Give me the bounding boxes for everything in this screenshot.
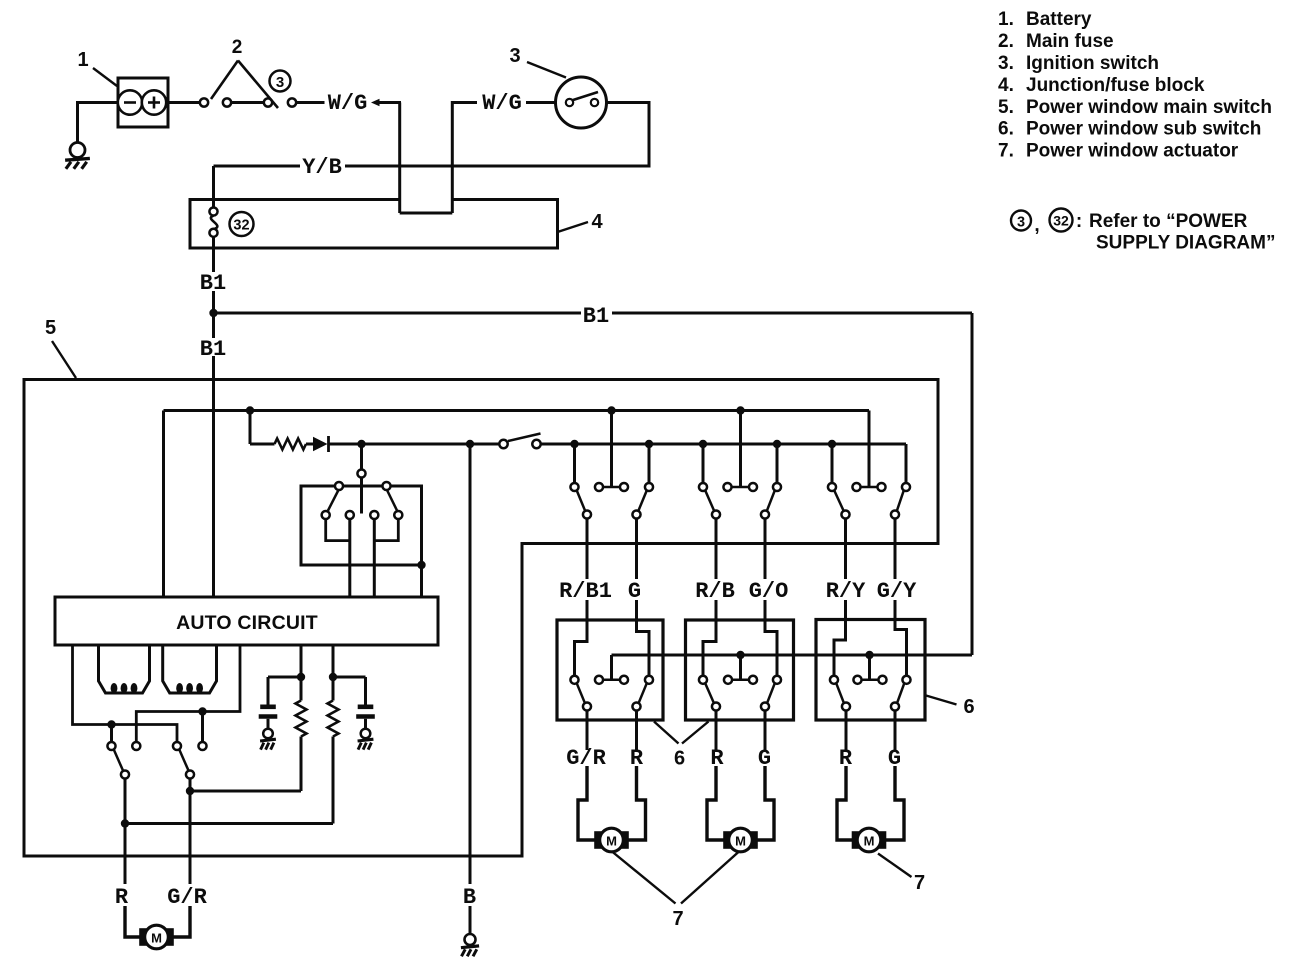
svg-text:B1: B1	[200, 337, 226, 362]
svg-text:Power window sub switch: Power window sub switch	[1026, 119, 1261, 140]
svg-text:2.: 2.	[998, 31, 1014, 52]
svg-text:Refer to “POWER: Refer to “POWER	[1089, 211, 1248, 232]
svg-text:7: 7	[672, 908, 683, 930]
svg-text:,: ,	[1034, 215, 1039, 236]
svg-text:G/O: G/O	[749, 579, 789, 604]
svg-text:AUTO CIRCUIT: AUTO CIRCUIT	[176, 612, 318, 634]
svg-text:B1: B1	[200, 271, 226, 296]
svg-text:3: 3	[276, 74, 284, 91]
svg-text:3: 3	[1017, 215, 1025, 231]
svg-text:G: G	[628, 579, 641, 604]
svg-text:Power window main switch: Power window main switch	[1026, 97, 1272, 118]
svg-text:W/G: W/G	[482, 91, 522, 116]
svg-text:4: 4	[591, 211, 603, 233]
svg-text::: :	[1076, 211, 1082, 232]
svg-text:32: 32	[233, 218, 249, 234]
svg-text:3.: 3.	[998, 53, 1014, 74]
svg-text:Main fuse: Main fuse	[1026, 31, 1114, 52]
svg-text:B1: B1	[583, 304, 609, 329]
svg-text:7.: 7.	[998, 141, 1014, 162]
svg-text:G/R: G/R	[167, 885, 207, 910]
svg-text:1.: 1.	[998, 9, 1014, 30]
svg-text:SUPPLY DIAGRAM”: SUPPLY DIAGRAM”	[1096, 233, 1275, 254]
svg-text:6.: 6.	[998, 119, 1014, 140]
svg-text:5.: 5.	[998, 97, 1014, 118]
svg-text:M: M	[606, 834, 617, 849]
svg-text:M: M	[151, 931, 162, 946]
svg-text:W/G: W/G	[328, 91, 368, 116]
svg-text:2: 2	[232, 37, 243, 58]
svg-text:Junction/fuse block: Junction/fuse block	[1026, 75, 1205, 96]
svg-text:G/Y: G/Y	[877, 579, 917, 604]
svg-text:R: R	[115, 885, 129, 910]
svg-text:5: 5	[45, 317, 56, 339]
svg-text:4.: 4.	[998, 75, 1014, 96]
svg-text:1: 1	[77, 49, 88, 71]
svg-text:Power window actuator: Power window actuator	[1026, 141, 1239, 162]
svg-text:3: 3	[509, 45, 520, 67]
svg-text:7: 7	[914, 872, 925, 894]
svg-text:Ignition switch: Ignition switch	[1026, 53, 1159, 74]
svg-text:M: M	[864, 834, 875, 849]
svg-text:Y/B: Y/B	[302, 155, 342, 180]
svg-text:6: 6	[963, 696, 974, 718]
svg-text:Battery: Battery	[1026, 9, 1092, 30]
svg-text:6: 6	[674, 748, 685, 770]
svg-text:32: 32	[1053, 213, 1069, 229]
svg-text:M: M	[735, 834, 746, 849]
